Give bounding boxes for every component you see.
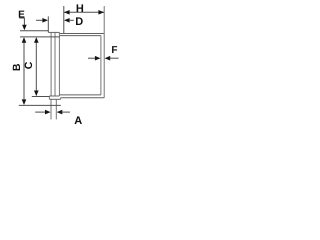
label H — [76, 4, 83, 12]
body inner top edge — [60, 35, 101, 37]
flange nut top edge — [49, 95, 59, 97]
dim D left tail — [36, 19, 44, 21]
dim A arrow pointing right — [45, 110, 51, 115]
dim F arrow pointing right — [95, 56, 101, 61]
dim D left arrow pointing right — [42, 18, 48, 23]
body outer top edge — [48, 31, 59, 33]
dim H left arrow — [64, 10, 70, 15]
svg-text:F: F — [111, 45, 117, 56]
dim A arrow pointing left — [57, 110, 63, 115]
body outer bottom edge — [61, 97, 105, 99]
pipe outer left wall — [50, 32, 52, 96]
dim F left tail — [88, 57, 96, 59]
dim H line — [64, 11, 104, 13]
svg-text:B: B — [11, 63, 23, 71]
svg-text:A: A — [74, 115, 82, 127]
svg-text:D: D — [75, 16, 83, 28]
dim B line — [23, 38, 25, 103]
E leader horizontal — [19, 17, 25, 19]
dim F arrow pointing left — [105, 56, 111, 61]
body inner bottom edge — [59, 94, 101, 96]
stub left wall and A extension — [50, 99, 52, 119]
body outer right wall — [103, 6, 105, 98]
stub right wall and A extension — [55, 99, 57, 119]
pipe inner left wall — [54, 32, 56, 96]
E leader vertical — [23, 18, 25, 26]
svg-text:C: C — [23, 61, 35, 69]
dim C line — [35, 38, 37, 94]
pipe inner right wall — [58, 32, 60, 96]
extension line C bottom — [32, 96, 50, 98]
body inner right wall — [100, 36, 102, 95]
flange nut right cap — [60, 98, 62, 100]
extension line lower left — [20, 36, 60, 38]
dim A left tail — [35, 111, 46, 113]
dim D right arrow pointing left — [64, 18, 70, 23]
dim B down arrow — [22, 99, 27, 105]
dim D right tail — [69, 19, 74, 21]
dim C down arrow — [34, 91, 39, 97]
dim H right arrow — [98, 10, 104, 15]
flange nut left cap — [48, 96, 50, 99]
body outer top edge right part — [60, 33, 105, 35]
flange nut bottom edge — [49, 98, 60, 100]
extension line H and D left — [63, 6, 65, 34]
dim B up arrow — [22, 37, 27, 43]
dim C up arrow — [34, 37, 39, 43]
extension line D left side — [47, 16, 49, 32]
E leader down arrow — [22, 25, 27, 31]
dim F right tail — [110, 57, 119, 59]
svg-text:H: H — [76, 3, 84, 15]
extension line upper left — [20, 30, 48, 32]
dim A right tail — [62, 111, 70, 113]
stub bottom line with B extension — [19, 104, 61, 106]
